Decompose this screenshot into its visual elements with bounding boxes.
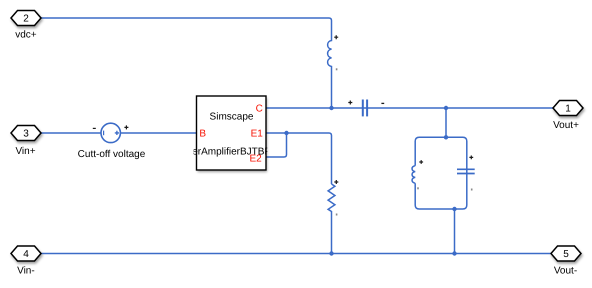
svg-text:Simscape: Simscape: [210, 111, 254, 122]
svg-text:E2: E2: [249, 154, 262, 165]
svg-text:Vout+: Vout+: [553, 120, 579, 131]
svg-text:4: 4: [23, 249, 29, 260]
svg-text:Vin-: Vin-: [17, 266, 35, 277]
svg-text:1: 1: [565, 104, 571, 115]
svg-text:3: 3: [23, 129, 29, 140]
svg-text:5: 5: [563, 249, 569, 260]
svg-text:E1: E1: [251, 128, 264, 139]
svg-text:vdc+: vdc+: [15, 30, 37, 41]
svg-text:Vout-: Vout-: [554, 265, 577, 276]
svg-text:Cutt-off voltage: Cutt-off voltage: [78, 149, 146, 160]
svg-text:2: 2: [23, 14, 29, 25]
svg-text:B: B: [199, 128, 206, 139]
svg-text:Vin+: Vin+: [15, 146, 35, 157]
svg-text:C: C: [256, 104, 263, 115]
